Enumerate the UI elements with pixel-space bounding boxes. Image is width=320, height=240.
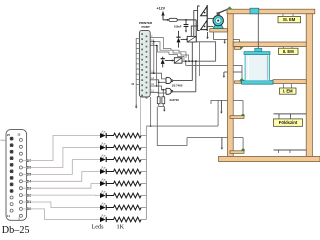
label hanger	[283, 84, 285, 88]
building floor beam (level II, right)	[273, 80, 306, 84]
wire LED row 6 to bus	[141, 195, 146, 197]
diode D2 (flyback)	[161, 57, 165, 68]
wire port pin14 stepped	[150, 42, 188, 62]
node label I. EM	[280, 88, 297, 94]
junction	[153, 72, 155, 74]
wire level-III sensor feed	[214, 32, 240, 39]
wire D4 to LED	[22, 172, 100, 182]
label hanger	[292, 14, 294, 17]
sensor probe (level III)	[223, 39, 226, 44]
sensor probe (cistern)	[221, 138, 224, 150]
wire +12V rail	[163, 19, 196, 21]
pipe pump to roof	[219, 9, 229, 13]
LED D4	[100, 167, 106, 174]
wire U1A output	[173, 80, 192, 82]
label hanger	[278, 114, 280, 119]
tank T1 body	[245, 54, 269, 81]
junction	[185, 60, 187, 62]
wire rail down to relay contacts	[195, 20, 197, 42]
connector J2 DB-25 body	[6, 130, 27, 221]
node label II. EM	[279, 48, 299, 54]
wire R2 bottom	[162, 104, 164, 107]
pipe along roof to tank	[250, 8, 259, 14]
bracket (level III)	[235, 47, 241, 50]
wire contact riser	[196, 42, 215, 61]
svg-text:III. EM: III. EM	[283, 17, 296, 22]
ground (resistors)	[163, 107, 166, 112]
building right column	[306, 14, 312, 157]
connector J1 printer port body	[139, 30, 150, 97]
wire LED row 7 to bus	[141, 207, 146, 209]
ground (capacitor)	[185, 29, 188, 32]
wire D7 to LED	[22, 136, 100, 161]
wire to contact	[242, 100, 244, 115]
wire to contact	[242, 138, 244, 150]
wire D3 to LED	[22, 184, 100, 189]
wire to contact	[239, 39, 241, 45]
wire level-II sensor feed	[186, 65, 242, 72]
svg-text:II. EM: II. EM	[283, 49, 294, 54]
wire port pin13 to U1A input	[150, 73, 166, 79]
svg-text:I. EM: I. EM	[283, 89, 293, 94]
bracket (ground floor)	[230, 116, 244, 119]
node label III. EM	[278, 16, 301, 22]
resistor 1K (row 3)	[106, 157, 141, 162]
sensor probe (level II)	[223, 72, 226, 78]
resistor 1K (row 8)	[106, 217, 141, 222]
junction	[191, 60, 193, 62]
wire to R1	[158, 82, 160, 97]
wire port down to LED row	[140, 97, 142, 136]
wire resistor node down	[157, 107, 187, 146]
svg-text:14: 14	[7, 214, 11, 218]
tank inlet pipe / probe	[257, 14, 259, 49]
svg-text:Db–25: Db–25	[2, 225, 30, 236]
junction	[188, 60, 190, 62]
svg-text:13: 13	[17, 133, 21, 137]
wire ground-floor sensor feed	[211, 100, 243, 104]
junction input/R2	[162, 89, 164, 91]
wire common to building	[146, 125, 218, 127]
LED D0	[100, 215, 106, 222]
junction sensor common	[150, 125, 152, 127]
wire D1 to LED	[22, 202, 100, 208]
wire D6 to LED	[22, 148, 100, 168]
junction	[195, 60, 197, 62]
connector J1 pins	[141, 33, 147, 98]
LED D1	[100, 203, 106, 210]
shelf (cistern level)	[274, 149, 307, 151]
wire U1B output	[173, 91, 196, 93]
wire LED row 5 to bus	[141, 183, 146, 185]
motor M1 pump base	[213, 25, 223, 29]
plug contact triangle (bottom)	[201, 20, 207, 29]
svg-text:1K: 1K	[117, 224, 125, 231]
svg-text:2x2700: 2x2700	[170, 98, 180, 102]
wire riser ground floor sensor	[217, 100, 219, 126]
wire D0 to LED	[22, 209, 100, 220]
pump junction box	[217, 12, 220, 15]
tank support base (cyan)	[242, 81, 273, 85]
wire plug to pump (bottom)	[207, 25, 213, 27]
op-amp U1A (NAND 1/2 7400)	[166, 78, 173, 84]
LED D5	[100, 155, 106, 162]
svg-text:100uF: 100uF	[174, 24, 182, 28]
label hanger	[283, 47, 285, 49]
junction	[156, 85, 158, 87]
resistor R2 (2700)	[162, 97, 165, 104]
capacitor C1 100uF	[184, 20, 189, 29]
wire port pin10 to U1B input	[150, 86, 166, 90]
well probe	[206, 32, 209, 39]
wire RL2 to contact node	[182, 60, 216, 62]
LED D6	[100, 143, 106, 150]
label hanger	[290, 114, 292, 119]
connector J1 ground stubs	[136, 38, 140, 84]
wire port to gate input riser	[156, 46, 158, 87]
wire to R2	[162, 90, 164, 97]
sensor contact (ground floor)	[242, 114, 245, 117]
building ground beam	[219, 156, 320, 161]
label hanger	[291, 84, 293, 88]
sensor contact (level II)	[240, 78, 244, 82]
resistor R1 (2700)	[157, 97, 160, 104]
building floor beam (level III)	[233, 42, 306, 47]
connector J2 pins 13-1	[19, 138, 22, 217]
wire LED row 4 to bus	[141, 171, 146, 173]
wire LED row 2 to bus	[141, 147, 146, 149]
shelf (ground floor)	[274, 113, 307, 115]
shelf leg	[290, 114, 292, 117]
wire relay contact to plug (bottom)	[191, 26, 197, 36]
LED D2	[100, 191, 106, 198]
connector J2 pins 25-14	[10, 137, 13, 212]
wire LED row 8 to bus	[141, 219, 146, 221]
wire ground bus	[135, 38, 137, 104]
bracket (cistern)	[230, 151, 244, 154]
plug contact triangle (top)	[201, 7, 207, 16]
sensor contact (level III)	[239, 45, 243, 49]
wire R bottoms	[159, 104, 165, 107]
wire port pin11 to U1B input	[150, 91, 166, 94]
shelf leg	[278, 114, 280, 117]
wire D2 to RL2	[165, 60, 175, 62]
svg-text:1/2 7400: 1/2 7400	[172, 83, 183, 87]
resistor 1K (row 2)	[106, 145, 141, 150]
svg-text:+12V: +12V	[157, 7, 166, 11]
motor M1 pump body	[213, 15, 223, 25]
shelf leg	[278, 150, 280, 153]
pump platform	[210, 29, 228, 32]
+12V arrow symbol	[161, 11, 164, 16]
wire level-II feed stub	[185, 61, 187, 65]
svg-text:25: 25	[7, 133, 11, 137]
sensor probe (ground floor)	[220, 100, 223, 113]
wire D1 to RL1	[181, 38, 188, 40]
wire RL2 to gate U1B output	[195, 61, 197, 92]
relay RL2 coil	[174, 58, 182, 64]
svg-text:PORT: PORT	[142, 25, 151, 29]
wire contact run	[199, 42, 201, 76]
junction diode/relay RL2	[171, 60, 173, 62]
wire step	[186, 138, 188, 146]
bracket (level II)	[235, 81, 242, 83]
junction	[156, 45, 158, 47]
resistor 1K (row 5)	[106, 181, 141, 186]
wire cistern sensor feed	[187, 137, 243, 139]
wire LED row 3 to bus	[141, 159, 146, 161]
op-amp U1B (NAND 1/2 7400)	[166, 88, 173, 94]
mains connector bracket	[198, 6, 200, 31]
wire port pin16 stepped	[150, 46, 184, 61]
wire D5 to LED	[22, 160, 100, 175]
junction rail/fuse	[167, 19, 169, 21]
wire to pin 25	[1, 139, 7, 141]
wire LED common bus	[145, 126, 147, 219]
ground (port)	[135, 104, 138, 109]
tank T1 cap	[255, 48, 262, 51]
tank T1 rim	[244, 52, 270, 55]
pipe fitting (green)	[228, 7, 232, 11]
wire port pin12 to U1A input	[150, 80, 166, 83]
wire port to sensor common	[150, 97, 152, 126]
fuse F1	[169, 18, 177, 21]
junction rail/capacitor	[185, 19, 187, 21]
wire port to gate input riser	[153, 42, 155, 74]
building roof beam	[227, 9, 315, 14]
junction diode/relay RL1	[186, 39, 188, 41]
svg-text:Leds: Leds	[92, 224, 105, 231]
resistor 1K (row 1)	[106, 133, 141, 138]
wire RL1 to gate U1A output	[191, 42, 193, 81]
contact dot	[204, 26, 206, 28]
wire port pin1 to relay RL2 (stepped)	[150, 38, 186, 58]
LED D3	[100, 179, 106, 186]
wire D2 to LED	[22, 194, 100, 196]
wire to contact	[241, 72, 243, 79]
label hanger	[282, 14, 284, 17]
LED D7	[100, 131, 106, 138]
svg-text:Földszint: Földszint	[279, 120, 298, 125]
junction	[153, 41, 155, 43]
wire LED row 1 to bus	[141, 135, 146, 137]
label hanger	[291, 47, 293, 49]
wire relay contact to plug (top)	[194, 10, 198, 36]
resistor 1K (row 7)	[106, 205, 141, 210]
wire plug to pump (top)	[207, 18, 213, 20]
mains bus bar	[206, 5, 208, 31]
diode D1 (flyback)	[176, 31, 180, 48]
shelf leg	[289, 150, 291, 153]
junction input/R1	[158, 81, 160, 83]
resistor 1K (row 6)	[106, 193, 141, 198]
building left column	[228, 14, 234, 157]
sensor contact (cistern)	[242, 149, 245, 152]
relay RL1 coil	[187, 36, 196, 42]
node label Foldszint	[274, 119, 303, 126]
resistor 1K (row 4)	[106, 169, 141, 174]
contact dot	[204, 12, 206, 14]
